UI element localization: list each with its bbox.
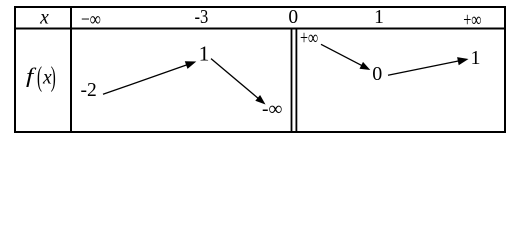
svg-text:): ) [51,59,56,92]
svg-text:+∞: +∞ [463,9,481,31]
svg-text:-3: -3 [195,6,209,28]
svg-text:f: f [26,65,37,88]
svg-text:x: x [39,8,49,29]
svg-text:-∞: -∞ [262,99,282,120]
svg-text:−∞: −∞ [81,8,101,30]
svg-text:(: ( [37,59,42,92]
svg-text:1: 1 [199,42,210,66]
svg-text:0: 0 [288,7,298,28]
svg-text:0: 0 [372,63,382,85]
svg-text:+∞: +∞ [300,27,318,49]
svg-text:-2: -2 [81,80,97,101]
svg-text:1: 1 [374,7,384,28]
svg-text:1: 1 [471,47,481,69]
